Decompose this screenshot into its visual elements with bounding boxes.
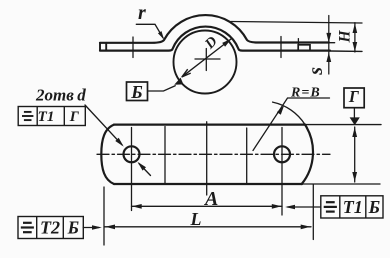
- svg-text:A: A: [203, 188, 218, 210]
- svg-text:2отв d: 2отв d: [35, 86, 86, 105]
- svg-text:Б: Б: [67, 218, 79, 238]
- svg-text:Г: Г: [348, 87, 360, 106]
- svg-text:Б: Б: [130, 82, 142, 102]
- svg-text:Т2: Т2: [40, 218, 60, 238]
- svg-text:r: r: [138, 2, 146, 24]
- svg-text:Т1: Т1: [343, 197, 363, 217]
- svg-text:Т1: Т1: [38, 109, 55, 125]
- svg-text:Г: Г: [69, 109, 80, 125]
- svg-text:H: H: [337, 30, 354, 44]
- svg-text:Б: Б: [368, 197, 380, 217]
- svg-text:s: s: [305, 67, 327, 76]
- svg-text:L: L: [190, 209, 202, 229]
- svg-text:R=B: R=B: [290, 86, 321, 101]
